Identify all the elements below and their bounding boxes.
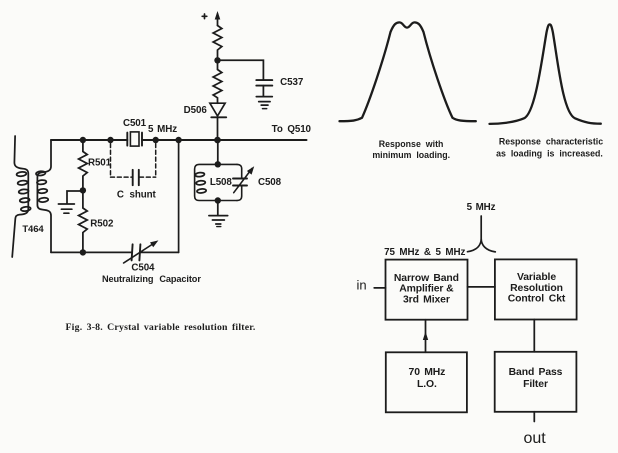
svg-text:R501: R501 — [88, 157, 112, 168]
svg-text:Narrow Band: Narrow Band — [394, 273, 459, 284]
svg-text:D506: D506 — [184, 105, 208, 116]
svg-text:T464: T464 — [22, 224, 44, 235]
svg-text:minimum loading.: minimum loading. — [372, 150, 450, 160]
svg-text:Neutralizing Capacitor: Neutralizing Capacitor — [102, 274, 201, 284]
svg-text:To Q510: To Q510 — [272, 124, 312, 135]
svg-text:Amplifier &: Amplifier & — [399, 284, 454, 295]
svg-text:out: out — [524, 430, 547, 447]
svg-text:Filter: Filter — [523, 379, 548, 390]
svg-text:in: in — [357, 278, 367, 293]
svg-text:as loading is increased.: as loading is increased. — [496, 148, 603, 158]
svg-text:5 MHz: 5 MHz — [148, 124, 177, 135]
svg-text:C504: C504 — [131, 263, 155, 274]
svg-text:3rd Mixer: 3rd Mixer — [403, 294, 450, 305]
svg-text:C537: C537 — [280, 77, 304, 88]
svg-text:70 MHz: 70 MHz — [409, 367, 446, 378]
svg-text:L508: L508 — [210, 177, 233, 188]
svg-text:C501: C501 — [123, 118, 147, 129]
svg-text:L.O.: L.O. — [417, 379, 437, 390]
svg-text:Response characteristic: Response characteristic — [499, 137, 603, 147]
svg-text:R502: R502 — [90, 218, 114, 229]
svg-text:Control Ckt: Control Ckt — [508, 294, 566, 305]
svg-text:Resolution: Resolution — [510, 283, 563, 294]
svg-text:Band Pass: Band Pass — [509, 367, 563, 378]
svg-text:C shunt: C shunt — [117, 190, 157, 201]
svg-text:75 MHz & 5 MHz: 75 MHz & 5 MHz — [384, 247, 465, 258]
svg-text:C508: C508 — [258, 177, 282, 188]
svg-text:Response with: Response with — [379, 139, 444, 149]
svg-text:5 MHz: 5 MHz — [467, 202, 496, 213]
svg-text:Fig. 3-8. Crystal variable res: Fig. 3-8. Crystal variable resolution fi… — [66, 322, 256, 333]
svg-text:Variable: Variable — [517, 272, 556, 283]
